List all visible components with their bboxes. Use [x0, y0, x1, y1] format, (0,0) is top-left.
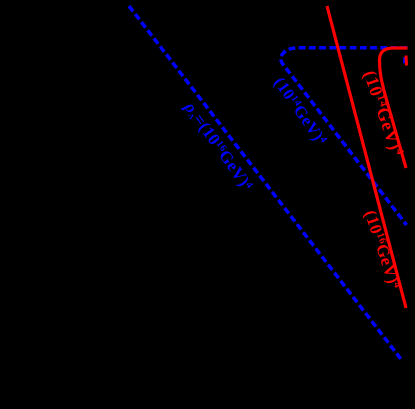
curve red with corner (10^14GeV)^4 — [380, 48, 408, 168]
label (10^14GeV)^4 blue — [270, 73, 331, 148]
label rho_Lambda=(10^16GeV)^4 blue — [180, 97, 257, 194]
label (10^14GeV)^4 red — [359, 68, 408, 159]
clipped blue dashed stub at right edge — [403, 58, 406, 64]
curve rho_Lambda=(10^16GeV)^4 blue dashed diagonal — [129, 6, 402, 361]
curve (10^14GeV)^4 blue dashed with corner — [281, 48, 408, 225]
clipped red stub at right edge — [405, 56, 409, 66]
label (10^16GeV)^4 red — [361, 208, 405, 292]
curve red straight line (10^16GeV)^4 — [327, 6, 406, 308]
